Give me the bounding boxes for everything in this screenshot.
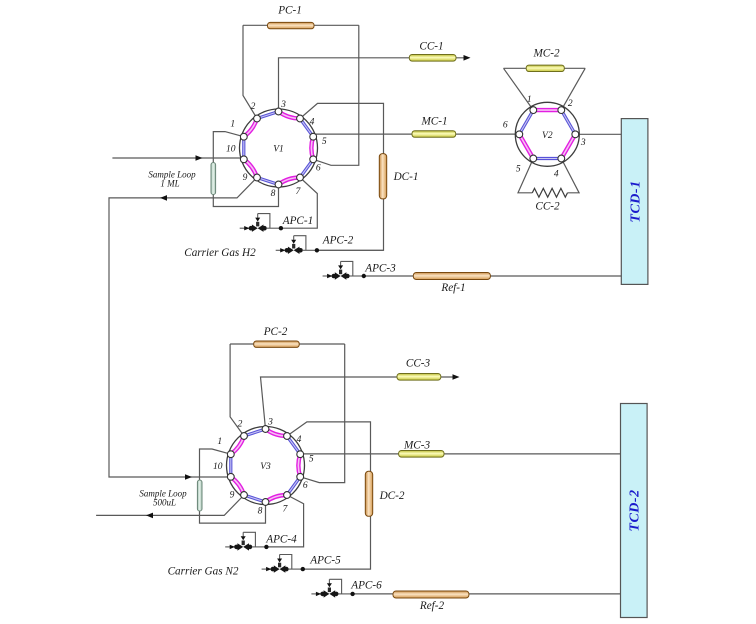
svg-text:10: 10: [226, 144, 236, 154]
wire MC-3 run V3 port 5 to TCD-2: [300, 453, 620, 455]
valve V2 six-port: [503, 95, 586, 179]
wire V3 port 1 to sample loop 2: [200, 449, 266, 523]
svg-text:6: 6: [316, 163, 321, 173]
svg-text:APC-6: APC-6: [350, 580, 382, 592]
svg-text:3: 3: [267, 418, 273, 428]
regulator APC-2: [276, 236, 319, 254]
detector TCD-2 box: [621, 404, 648, 618]
svg-text:V2: V2: [542, 131, 553, 141]
svg-text:5: 5: [322, 137, 327, 147]
wire V3 port 9 out to vent: [96, 495, 244, 515]
wire APC-6 out to Ref-2 to TCD-2: [351, 593, 621, 595]
svg-text:APC-5: APC-5: [309, 555, 341, 567]
svg-text:TCD-1: TCD-1: [628, 180, 643, 222]
wire APC-4 out to V3 port 7: [268, 495, 304, 547]
svg-text:1: 1: [230, 120, 235, 130]
wire V3 port 4 to DC-2 top: [287, 422, 371, 471]
svg-text:PC-1: PC-1: [277, 5, 302, 17]
regulator APC-6: [311, 579, 354, 597]
svg-text:5: 5: [516, 165, 521, 175]
svg-text:1 ML: 1 ML: [160, 179, 179, 189]
arrow into V3 port 10: [185, 474, 192, 480]
wire V3 port 3 up to CC-3: [261, 377, 456, 429]
column Ref-1: [413, 273, 490, 280]
wire V1 port 3 up to CC-1: [279, 58, 467, 112]
svg-text:3: 3: [580, 138, 586, 148]
svg-text:CC-3: CC-3: [406, 358, 431, 370]
wire V2 port 1 to MC-2 left: [504, 68, 534, 110]
svg-text:APC-3: APC-3: [364, 263, 396, 275]
svg-text:1: 1: [217, 437, 222, 447]
svg-text:V3: V3: [260, 462, 271, 472]
column DC-2: [365, 471, 372, 516]
detector TCD-1 box: [621, 119, 648, 285]
arrow V3 loop vent left: [146, 513, 153, 519]
wire MC-1 run V1 port 5 to V2 port 6: [313, 133, 519, 135]
arrow V1 loop vent left: [160, 195, 167, 201]
svg-text:MC-3: MC-3: [403, 440, 431, 452]
sample loop 2 capsule: [197, 480, 202, 511]
regulator APC-4: [225, 532, 268, 550]
svg-text:6: 6: [303, 481, 308, 491]
arrow CC-1 vent: [464, 55, 471, 61]
column MC-2: [526, 65, 564, 71]
svg-text:Ref-1: Ref-1: [440, 282, 465, 294]
svg-text:TCD-2: TCD-2: [628, 489, 643, 531]
wire MC-2 right to V2 port 2: [561, 68, 585, 110]
wire PC-1 right down to V1 port 6: [313, 25, 359, 165]
svg-text:Carrier Gas H2: Carrier Gas H2: [184, 247, 256, 259]
wire V1 port 4 to DC-1 top: [300, 103, 384, 153]
svg-text:9: 9: [230, 491, 235, 501]
wire MC-2 run: [504, 67, 586, 69]
svg-text:2: 2: [238, 420, 243, 430]
svg-text:Carrier Gas N2: Carrier Gas N2: [168, 566, 239, 578]
svg-text:10: 10: [213, 462, 223, 472]
svg-text:APC-4: APC-4: [265, 534, 297, 546]
svg-text:5: 5: [309, 455, 314, 465]
wire APC-1 out to V1 port 7: [280, 178, 317, 229]
wire PC-2 top run: [230, 343, 345, 345]
valve V3 ten-port: [213, 418, 314, 517]
svg-text:PC-2: PC-2: [263, 326, 288, 338]
column Ref-2: [393, 591, 469, 598]
svg-text:APC-1: APC-1: [282, 215, 313, 227]
wire V1 port 2 to PC-1 left: [243, 25, 257, 118]
wire APC-2 out to DC-1 riser: [317, 249, 384, 251]
column MC-1: [412, 131, 456, 138]
wire APC-3 out to Ref-1 to TCD-1: [364, 275, 622, 277]
wire DC-1 bottom to APC-2 out: [317, 199, 384, 250]
svg-text:4: 4: [310, 118, 315, 128]
wire V1 port 9 out to lower channel: [109, 178, 257, 478]
column CC-1: [409, 55, 456, 62]
svg-text:8: 8: [258, 507, 263, 517]
svg-text:CC-2: CC-2: [535, 201, 560, 213]
svg-text:3: 3: [280, 100, 286, 110]
column MC-3: [399, 451, 444, 458]
wire V3 port 2 to PC-2 left: [230, 344, 244, 436]
column CC-3: [397, 374, 441, 381]
wire PC-1 top run: [243, 24, 359, 26]
svg-text:MC-1: MC-1: [420, 116, 447, 128]
svg-text:4: 4: [297, 435, 302, 445]
svg-text:6: 6: [503, 120, 508, 130]
svg-text:4: 4: [554, 170, 559, 180]
wire sample inlet to V1 port 10: [112, 157, 243, 159]
svg-text:DC-1: DC-1: [393, 171, 419, 183]
arrow CC-3 vent: [453, 374, 460, 380]
svg-text:V1: V1: [273, 145, 284, 155]
regulator APC-3: [323, 261, 366, 279]
svg-text:2: 2: [568, 99, 573, 109]
resistor CC-2 zigzag: [532, 188, 567, 197]
sample loop 1 capsule: [211, 163, 216, 195]
svg-text:CC-1: CC-1: [419, 41, 443, 53]
svg-text:2: 2: [251, 102, 256, 112]
column PC-2: [254, 341, 300, 347]
regulator APC-5: [262, 555, 305, 573]
wire V1 port 1 to sample loop: [213, 132, 278, 207]
wire V2 port 5 to CC-2 left: [518, 159, 533, 193]
svg-text:9: 9: [243, 173, 248, 183]
svg-text:500uL: 500uL: [153, 498, 176, 508]
svg-text:MC-2: MC-2: [532, 48, 560, 60]
svg-text:Ref-2: Ref-2: [419, 600, 445, 612]
svg-text:1: 1: [527, 95, 532, 105]
column PC-1: [268, 22, 315, 28]
arrow sample inlet flow: [196, 155, 203, 161]
wire V2 port 3 to TCD-1: [575, 133, 621, 135]
wire CC-2 right to V2 port 4: [561, 159, 579, 193]
column DC-1: [379, 154, 386, 199]
regulator APC-1: [240, 214, 283, 232]
wire PC-2 right down to V3 port 6: [300, 344, 345, 483]
svg-text:APC-2: APC-2: [322, 235, 354, 247]
svg-text:DC-2: DC-2: [379, 490, 405, 502]
svg-text:8: 8: [271, 189, 276, 199]
wire DC-2 bottom to APC-5 out: [305, 516, 371, 569]
valve V1 ten-port: [226, 100, 327, 199]
